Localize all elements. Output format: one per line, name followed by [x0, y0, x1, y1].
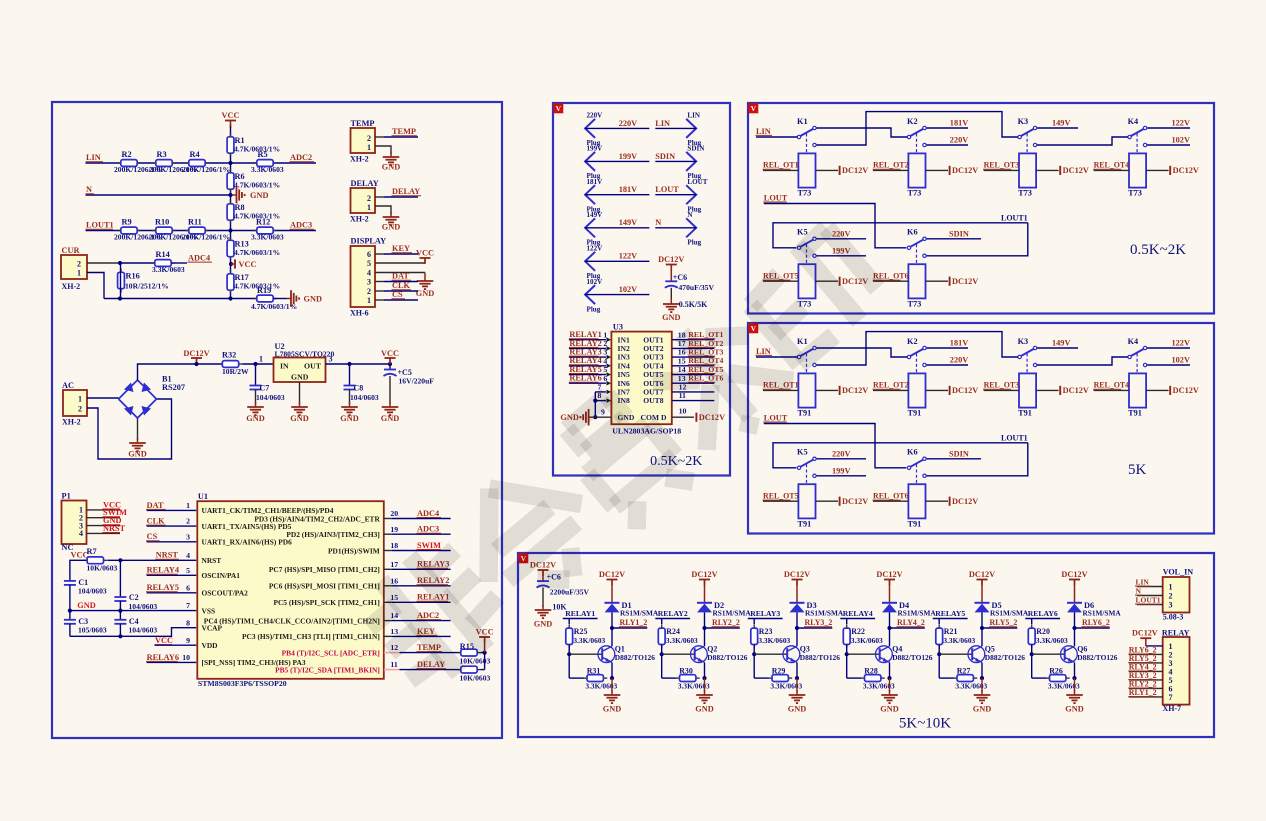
wire D6 to node [1074, 612, 1076, 628]
junction C8 node [347, 362, 351, 366]
wire AC pin2 loop to bridge right [87, 399, 172, 459]
relay coil K2 T91 [908, 373, 926, 417]
sheet border relay box T91 [748, 323, 1214, 534]
svg-text:RELAY5: RELAY5 [147, 583, 179, 592]
svg-text:ADC4: ADC4 [188, 254, 210, 263]
net label REL_OT3 [983, 161, 1019, 170]
svg-text:XH-6: XH-6 [350, 309, 369, 318]
svg-text:C2: C2 [129, 593, 139, 602]
wire base node down [662, 654, 677, 678]
svg-text:RELAY4: RELAY4 [843, 609, 873, 618]
svg-text:RELAY4: RELAY4 [147, 566, 179, 575]
svg-text:LIN: LIN [86, 153, 101, 162]
bridge rectifier B1 RS207 [119, 375, 186, 419]
pin number 20 U1 [390, 509, 398, 518]
svg-text:1: 1 [1169, 583, 1173, 592]
svg-text:IN2: IN2 [618, 344, 630, 353]
wire K2 coil right to DC12V [926, 169, 949, 171]
wire U3 pin11 [672, 391, 715, 401]
pin number 15 U3 out [678, 356, 686, 365]
svg-text:RELAY1: RELAY1 [569, 330, 601, 339]
svg-text:VCC: VCC [239, 260, 257, 269]
svg-text:R2: R2 [122, 150, 132, 159]
svg-text:DISPLAY: DISPLAY [351, 237, 387, 246]
svg-text:RELAY4: RELAY4 [569, 356, 601, 365]
svg-text:D882/TO126: D882/TO126 [985, 653, 1025, 662]
net label SWIM red [103, 508, 128, 517]
net label 199V [832, 247, 850, 256]
wire R22 to base node [846, 645, 848, 655]
junction R17 bottom [228, 296, 232, 300]
wire U3 OUT1 [672, 339, 715, 341]
ground cell D5 [973, 690, 991, 713]
wire base Q2 [662, 653, 695, 655]
svg-text:REL_OT6: REL_OT6 [873, 492, 909, 501]
svg-text:LIN: LIN [655, 119, 670, 128]
ground TEMP [382, 152, 400, 172]
junction Q5 emitter node [980, 676, 984, 680]
net label RELAY2 bottom [658, 609, 688, 618]
svg-text:1: 1 [367, 203, 371, 212]
wire LOUT1 row [86, 230, 317, 232]
net label 220V k5 [832, 450, 850, 459]
wire K3 top throw 149V [1037, 127, 1078, 129]
svg-text:CLK: CLK [147, 517, 166, 526]
net label REL_OT5 [763, 492, 799, 501]
resistor R24 [658, 624, 698, 648]
svg-text:102V: 102V [587, 278, 604, 286]
wire emitter to gnd Q1 [611, 678, 613, 692]
sheet marker V middle box [554, 104, 563, 113]
svg-text:R4: R4 [190, 150, 200, 159]
wire K2 bottom throw 220V [927, 144, 968, 146]
pin number 3 U2 [329, 354, 333, 363]
wire bridge bottom to gnd [137, 418, 139, 440]
wire RELAY conn RLY3_2 [1129, 679, 1163, 681]
svg-text:1: 1 [77, 268, 81, 277]
power DC12V cell D2 [691, 570, 717, 603]
svg-text:RELAY6: RELAY6 [147, 653, 179, 662]
wire Q6 emitter [1074, 663, 1076, 679]
wire VCC left rail [70, 560, 86, 581]
junction Q2 base node [660, 652, 664, 656]
net label SWIM u1 [417, 541, 442, 550]
wire LOUT1 bus to K5 [773, 223, 1028, 248]
svg-text:RS1M/SMA: RS1M/SMA [713, 609, 752, 618]
svg-text:200K/1206/1%: 200K/1206/1% [182, 232, 230, 241]
svg-text:D882/TO126: D882/TO126 [892, 653, 932, 662]
svg-text:220V: 220V [832, 450, 850, 459]
wire U1 pin 12 TEMP [384, 652, 460, 654]
transistor Q1 D882 [598, 645, 655, 663]
svg-text:DC12V: DC12V [658, 255, 684, 264]
net label DELAY u1 [417, 660, 447, 669]
net label REL_OT4 [688, 356, 724, 365]
net label LOUT plug [655, 185, 679, 194]
svg-text:R24: R24 [666, 627, 680, 636]
net label REL_OT6 [873, 492, 909, 501]
svg-text:R25: R25 [574, 627, 588, 636]
label 0.5K/5K [679, 300, 708, 309]
wire K4 coil right to DC12V [1146, 169, 1169, 171]
net label KEY [392, 244, 413, 253]
svg-text:5.08-3: 5.08-3 [1163, 613, 1184, 622]
wire U1 pin 11 DELAY [384, 669, 460, 671]
wire U2 GND pin [299, 382, 301, 404]
svg-text:RLY1_2: RLY1_2 [1129, 688, 1157, 697]
wire K4 bottom throw 102V [1147, 364, 1190, 366]
wire P1 pin2 SWIM [87, 517, 121, 519]
svg-text:DC12V: DC12V [1061, 570, 1087, 579]
sheet border relay box T73 [748, 103, 1214, 314]
svg-text:PD2 (HS)/AIN3/[TIM2_CH3]: PD2 (HS)/AIN3/[TIM2_CH3] [286, 530, 379, 539]
junction D4 collector node [887, 626, 891, 630]
svg-text:R9: R9 [122, 218, 132, 227]
wire REL_OT2 coil left [873, 169, 908, 171]
svg-text:PD1(HS)/SWIM: PD1(HS)/SWIM [328, 546, 380, 555]
svg-text:RELAY: RELAY [1162, 628, 1190, 637]
junction U3 pin8 tie [593, 399, 597, 403]
wire D5 to node [981, 612, 983, 628]
svg-text:0.5K/5K: 0.5K/5K [679, 300, 708, 309]
relay switch K1 [797, 337, 816, 373]
svg-text:7: 7 [1169, 693, 1173, 702]
svg-text:C7: C7 [260, 383, 270, 392]
mcu U1 STM8S003 [197, 492, 383, 688]
svg-text:DC12V: DC12V [183, 349, 209, 358]
wire U2 OUT to VCC [326, 363, 391, 365]
wire RLY2_2 out [705, 627, 740, 629]
relay switch K2 [907, 337, 926, 373]
svg-text:NRST: NRST [202, 556, 222, 565]
junction LIN/R1/R6 [228, 161, 232, 165]
wire R21 to base node [938, 645, 940, 655]
net label SDIN k6 [949, 230, 969, 239]
wire base Q1 [569, 653, 602, 655]
wire VOL_IN LOUT1 [1137, 604, 1163, 606]
svg-text:CS: CS [392, 290, 403, 299]
svg-text:T91: T91 [798, 409, 812, 418]
svg-text:DC12V: DC12V [969, 570, 995, 579]
svg-text:IN3: IN3 [618, 353, 630, 362]
wire TEMP pin2 [375, 136, 418, 138]
svg-text:2200uF/35V: 2200uF/35V [550, 588, 590, 597]
pin number 14 U3 out [678, 365, 686, 374]
wire U3 pin7 pin8 tie [595, 390, 611, 418]
relay coil K3 T91 [1018, 373, 1036, 417]
svg-text:T91: T91 [908, 409, 922, 418]
resistor R5 [251, 150, 284, 174]
net label VCC red [103, 500, 121, 509]
wire P1 pin1 VCC [87, 509, 121, 511]
junction Q6 base node [1030, 652, 1034, 656]
pin number 19 U1 [390, 525, 398, 534]
svg-text:N: N [86, 185, 92, 194]
junction Q4 base node [845, 652, 849, 656]
wire REL_OT4 coil left [1094, 389, 1129, 391]
svg-text:3.3K/0603: 3.3K/0603 [251, 165, 284, 174]
net label RLY6_2 [1082, 618, 1110, 627]
junction VCC mid node [229, 262, 233, 266]
svg-text:K1: K1 [797, 117, 808, 126]
plug right LOUT [686, 178, 708, 214]
svg-text:1: 1 [603, 330, 607, 339]
power DC12V K5 [840, 497, 869, 506]
net label N plug [655, 218, 661, 227]
net label RELAY5 bottom [935, 609, 965, 618]
relay coil K4 T91 [1128, 373, 1146, 417]
wire REL_OT1 coil left [763, 389, 798, 391]
svg-text:3.3K/0603: 3.3K/0603 [573, 636, 605, 645]
svg-text:T91: T91 [1018, 409, 1032, 418]
plug left 220V [585, 112, 603, 148]
net label ADC2 [290, 153, 315, 162]
connector VOL_IN 5.08-3 [1163, 568, 1194, 622]
net label RLY1_2 [619, 618, 647, 627]
svg-text:1: 1 [259, 354, 263, 363]
net label 181V [950, 339, 968, 348]
svg-text:GND: GND [534, 619, 552, 628]
wire K5 coil right to DC12V [816, 280, 839, 282]
svg-text:RS1M/SMA: RS1M/SMA [990, 609, 1029, 618]
net label CLK [392, 281, 412, 290]
net label RELAY3 bottom [750, 609, 780, 618]
svg-text:R16: R16 [126, 272, 140, 281]
power VCC display [416, 249, 434, 264]
svg-text:RELAY6: RELAY6 [569, 374, 601, 383]
resistor R25 [566, 624, 606, 648]
junction Q3 base node [752, 652, 756, 656]
net label ADC3 u1 [417, 525, 442, 534]
net label REL_OT2 [688, 339, 724, 348]
wire DISPLAY pin1 CS [375, 299, 418, 301]
svg-text:GND: GND [382, 223, 400, 232]
wire base Q5 [939, 653, 972, 655]
wire K2 top throw 181V [927, 347, 968, 349]
power VCC top of ladder [222, 111, 240, 128]
resistor R16 [118, 269, 169, 293]
connector TEMP XH-2 [350, 119, 375, 164]
wire D3 to node [796, 612, 798, 628]
svg-text:11: 11 [679, 391, 686, 400]
wire plug SDIN [655, 160, 696, 162]
wire Q2 emitter [704, 663, 706, 679]
wire RELAY4 to U3 [569, 364, 611, 369]
connector CUR XH-2 [61, 246, 87, 291]
net label LIN [86, 153, 104, 162]
wire emitter to gnd Q5 [981, 678, 983, 692]
svg-text:3: 3 [1169, 601, 1173, 610]
connector DELAY XH-2 [350, 179, 379, 224]
ground C5 [381, 402, 399, 423]
wire Q2 collector [704, 628, 706, 646]
wire LIN to K1 [756, 356, 797, 358]
net label RELAY4 bottom [843, 609, 873, 618]
svg-text:P1: P1 [62, 492, 71, 501]
svg-text:IN4: IN4 [618, 361, 630, 370]
wire CUR pin2 [87, 262, 120, 264]
svg-text:GND: GND [291, 373, 309, 382]
svg-text:181V: 181V [950, 339, 968, 348]
svg-text:D882/TO126: D882/TO126 [707, 653, 747, 662]
svg-text:DC12V: DC12V [952, 277, 978, 286]
svg-text:GND: GND [128, 450, 146, 459]
svg-text:DAT: DAT [392, 272, 409, 281]
svg-text:220V: 220V [587, 112, 604, 120]
svg-text:IN5: IN5 [618, 370, 630, 379]
wire R23 to base node [753, 645, 755, 655]
svg-text:R28: R28 [864, 666, 878, 675]
wire RELAY4 input [840, 619, 875, 625]
resistor R31 [583, 666, 617, 690]
power DC12V K3 [1060, 386, 1089, 395]
wire K3 top throw 149V [1037, 347, 1078, 349]
svg-text:VSS: VSS [202, 606, 216, 615]
connector DISPLAY XH-6 [350, 237, 386, 318]
relay coil K6 T73 [908, 264, 926, 308]
plug left 102V [585, 278, 603, 314]
wire K5 bottom throw 199V [817, 475, 866, 477]
wire REL_OT1 coil left [763, 169, 798, 171]
wire RELAY2 input [655, 619, 690, 625]
svg-text:6: 6 [186, 583, 190, 592]
wire Q5 emitter [981, 663, 983, 679]
svg-text:181V: 181V [950, 119, 968, 128]
svg-text:3.3K/0603: 3.3K/0603 [1048, 682, 1080, 691]
connector P1 [62, 492, 87, 545]
net label LIN relay box [756, 347, 773, 356]
net label ADC4 [188, 254, 213, 263]
pin number 16 U1 [390, 576, 398, 585]
svg-text:K4: K4 [1128, 337, 1139, 346]
svg-text:GND: GND [246, 414, 264, 423]
wire K4 coil right to DC12V [1146, 389, 1169, 391]
net label NRST red [103, 524, 126, 533]
svg-text:RLY2_2: RLY2_2 [712, 618, 740, 627]
pin number 2 U3 [603, 339, 607, 348]
svg-text:19: 19 [390, 525, 398, 534]
net label 220V plug [619, 119, 637, 128]
svg-text:K3: K3 [1018, 117, 1029, 126]
power DC12V K2 [950, 166, 979, 175]
net label LOUT relay box [763, 413, 787, 422]
svg-text:V: V [751, 104, 757, 113]
wire RELAY6 to U3 [569, 381, 611, 386]
pin number 15 U1 [390, 593, 398, 602]
wire DAT to U1 [147, 509, 197, 511]
svg-text:8: 8 [186, 618, 190, 627]
wire base node down [939, 654, 954, 678]
svg-text:Plug: Plug [687, 239, 701, 247]
ground cell D4 [880, 690, 898, 713]
wire K3 coil right to DC12V [1036, 169, 1059, 171]
wire Q1 collector [611, 628, 613, 646]
power DC12V K4 [1170, 386, 1199, 395]
power DC12V K6 [950, 277, 979, 286]
svg-text:1: 1 [367, 143, 371, 152]
svg-text:C3: C3 [78, 617, 88, 626]
svg-text:7: 7 [186, 601, 190, 610]
svg-text:4.7K/0603/1%: 4.7K/0603/1% [234, 181, 280, 190]
net label RLY5_2 conn [1128, 654, 1156, 663]
svg-text:DC12V: DC12V [599, 570, 625, 579]
svg-text:NRST: NRST [156, 551, 179, 560]
svg-text:DC12V: DC12V [842, 386, 868, 395]
pin number 7 U3 [598, 382, 602, 391]
capacitor C6 middle 470uF [665, 273, 715, 301]
net label ADC2 u1 [417, 611, 442, 620]
junction C2/C4 gnd rail [118, 609, 122, 613]
wire base node down [1032, 654, 1047, 678]
wire K1 top throw to K2 common [817, 128, 908, 137]
svg-text:PB4 (T)/I2C_SCL [ADC_ETR]: PB4 (T)/I2C_SCL [ADC_ETR] [282, 648, 380, 657]
svg-text:GND: GND [416, 289, 434, 298]
net label 181V plug [619, 185, 637, 194]
pin number 6 U3 [603, 374, 607, 383]
svg-text:SWIM: SWIM [417, 541, 441, 550]
svg-text:RLY5_2: RLY5_2 [990, 618, 1018, 627]
junction U3 gnd tie [593, 415, 597, 419]
wire LOUT1 bus to K5 [773, 443, 1028, 468]
net label REL_OT6 [688, 374, 724, 383]
svg-text:149V: 149V [619, 218, 637, 227]
relay coil K6 T91 [908, 484, 926, 528]
svg-text:DC12V: DC12V [952, 386, 978, 395]
svg-text:UART1_RX/AIN6/(HS) PD6: UART1_RX/AIN6/(HS) PD6 [202, 538, 293, 547]
net label RLY3_2 [804, 618, 832, 627]
junction R16 bottom [118, 296, 122, 300]
pin number 17 U1 [390, 560, 398, 569]
svg-text:XH-2: XH-2 [62, 282, 81, 291]
wire base Q4 [847, 653, 880, 655]
svg-text:3.3K/0603: 3.3K/0603 [585, 682, 617, 691]
capacitor C2 [114, 560, 157, 611]
svg-text:3.3K/0603: 3.3K/0603 [666, 636, 698, 645]
wire U3 GND pin9 [591, 416, 612, 418]
svg-text:OUT4: OUT4 [643, 361, 663, 370]
wire RELAY conn RLY1_2 [1129, 696, 1163, 698]
connector AC XH-2 [62, 381, 87, 427]
wire U1 pin 18 SWIM [384, 550, 451, 552]
svg-text:4.7K/0603/1%: 4.7K/0603/1% [234, 248, 280, 257]
svg-text:REL_OT4: REL_OT4 [1094, 381, 1130, 390]
wire REL_OT5 coil left [763, 280, 798, 282]
wire RELAY1 to U3 [569, 337, 611, 342]
wire RELAY conn RLY2_2 [1129, 687, 1163, 689]
wire AC pin1 to bridge [87, 398, 119, 399]
net label CLK [146, 517, 166, 526]
wire Q6 collector [1074, 628, 1076, 646]
net label RELAY4 [146, 566, 179, 575]
wire DISPLAY pin5 VCC [375, 262, 425, 264]
svg-text:OUT2: OUT2 [643, 344, 663, 353]
svg-text:REL_OT5: REL_OT5 [763, 492, 799, 501]
wire ladder bottom rail [104, 298, 257, 300]
label NC [62, 543, 74, 552]
power DC12V cell D5 [969, 570, 995, 603]
wire LOUT1 bus to K6 bottom throw [927, 443, 1028, 476]
svg-text:10: 10 [679, 407, 687, 416]
ground U3 [560, 409, 592, 426]
pin number 3 U3 [603, 348, 607, 357]
resistor R12 [251, 218, 284, 242]
chip U3 ULN2803 [611, 323, 681, 436]
net label 122V [1172, 339, 1190, 348]
svg-text:LIN: LIN [756, 127, 771, 136]
wire R25 to base node [568, 645, 570, 655]
svg-text:RS207: RS207 [162, 383, 185, 392]
svg-text:RS1M/SMA: RS1M/SMA [805, 609, 844, 618]
